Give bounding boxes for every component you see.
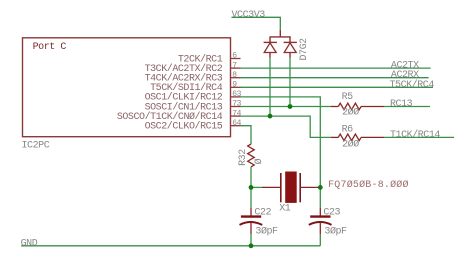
svg-text:T5CK/RC4: T5CK/RC4 xyxy=(390,79,435,91)
svg-text:2ØØ: 2ØØ xyxy=(342,107,359,119)
diode D2 triangle xyxy=(284,43,296,53)
svg-text:R6: R6 xyxy=(342,124,354,135)
pin T4CK/AC2RX/RC3 pin 8 xyxy=(145,71,241,85)
wire diode D1 to pin74 net xyxy=(269,58,271,116)
svg-text:GND: GND xyxy=(21,238,38,249)
junction dot C22/GND xyxy=(249,243,254,248)
pin OSC1/CLKI/RC12 pin 63 xyxy=(145,90,242,104)
svg-text:R32: R32 xyxy=(238,149,249,166)
junction dot row74/D1 xyxy=(268,114,273,119)
resistor R32 (0 ohm) xyxy=(238,144,265,167)
op-amp U1 xyxy=(22,38,231,152)
IC box IC2 (Port C) xyxy=(23,38,231,137)
wire R5 to RC13 xyxy=(384,106,430,108)
node A wire (crystal left) xyxy=(251,186,262,188)
wire VCC3V3 underline xyxy=(232,17,281,30)
top bar xyxy=(270,36,291,38)
diode D2 anode pin xyxy=(289,53,291,58)
svg-text:2ØØ: 2ØØ xyxy=(342,139,359,151)
wire C23 to GND rail xyxy=(319,234,321,246)
junction dot node B xyxy=(318,185,323,190)
pin SOSCO/T1CK/CNØ/RC14 pin 74 xyxy=(117,109,242,123)
svg-text:7: 7 xyxy=(232,61,237,70)
common anode stem xyxy=(279,30,281,37)
resistor R6 xyxy=(331,124,384,150)
net VCC3V3 label xyxy=(232,10,281,31)
diode D2 (right) cathode stem xyxy=(289,37,291,43)
wire node B down to C23 xyxy=(319,187,321,208)
junction dot node A xyxy=(249,185,254,190)
wire diode D2 to pin73 net xyxy=(289,58,291,107)
wire crystal right to node B xyxy=(318,186,320,188)
diode D1 anode pin xyxy=(269,53,271,58)
wire R32 to crystal left node xyxy=(250,167,252,188)
wire node A down to C22 xyxy=(250,187,252,208)
svg-text:74: 74 xyxy=(232,109,241,118)
capacitor C22 xyxy=(240,207,279,237)
pin T3CK/AC2TX/RC2 pin 7 xyxy=(145,61,241,75)
wire pin8 to AC2RX xyxy=(241,77,429,79)
resistor R5 xyxy=(331,92,384,119)
svg-text:FQ7Ø5ØB-8.ØØØ: FQ7Ø5ØB-8.ØØØ xyxy=(328,179,409,191)
svg-text:Port C: Port C xyxy=(33,42,67,53)
diode D2 cathode bar xyxy=(284,41,297,43)
svg-text:73: 73 xyxy=(232,100,241,109)
svg-text:R5: R5 xyxy=(342,92,354,103)
svg-text:9: 9 xyxy=(232,81,237,90)
wire pin7 to AC2TX xyxy=(241,67,431,69)
diode D1 cathode bar xyxy=(264,41,277,43)
svg-text:3ØpF: 3ØpF xyxy=(324,226,347,238)
crystal X1 xyxy=(262,172,409,215)
pin SOSCI/CN1/RC13 pin 73 xyxy=(145,100,242,114)
wire pin63 OSC1 to crystal right xyxy=(241,97,321,187)
capacitor C23 xyxy=(309,207,347,237)
pin T5CK/SDI1/RC4 pin 9 xyxy=(150,81,240,95)
diode D1 triangle xyxy=(264,43,276,53)
wire C22 to GND rail xyxy=(250,234,252,246)
svg-text:VCC3V3: VCC3V3 xyxy=(232,10,266,21)
pin T2CK/RC1 pin 6 xyxy=(178,52,241,66)
svg-text:IC2PC: IC2PC xyxy=(22,140,50,151)
svg-text:6: 6 xyxy=(232,52,237,61)
svg-text:X1: X1 xyxy=(279,204,291,215)
svg-text:63: 63 xyxy=(232,90,241,99)
svg-text:3ØpF: 3ØpF xyxy=(255,226,278,238)
pin OSC2/CLKO/RC15 pin 64 xyxy=(145,119,242,133)
svg-text:8: 8 xyxy=(232,71,237,80)
svg-text:C22: C22 xyxy=(254,207,271,218)
diode pair D7G2 xyxy=(264,30,311,60)
svg-text:Ø: Ø xyxy=(253,158,265,164)
svg-text:D7G2: D7G2 xyxy=(299,38,310,61)
svg-text:RC13: RC13 xyxy=(390,99,413,110)
svg-text:OSC2/CLKO/RC15: OSC2/CLKO/RC15 xyxy=(145,121,223,133)
diode D1 (left) cathode stem xyxy=(269,37,271,43)
wire pin73 SOSCI to R5 xyxy=(241,106,332,108)
junction dot row73/D2 xyxy=(288,104,293,109)
svg-text:C23: C23 xyxy=(323,207,340,218)
svg-text:T1CK/RC14: T1CK/RC14 xyxy=(390,129,440,141)
svg-text:64: 64 xyxy=(232,119,241,128)
wire pin9 to T5CK/RC4 xyxy=(241,86,434,88)
wire pin74 SOSCO to R6 xyxy=(241,116,332,137)
wire pin64 OSC2 down to R32 xyxy=(241,126,252,144)
net GND rail xyxy=(21,245,320,247)
wire R6 to T1CK/RC14 xyxy=(384,136,454,138)
